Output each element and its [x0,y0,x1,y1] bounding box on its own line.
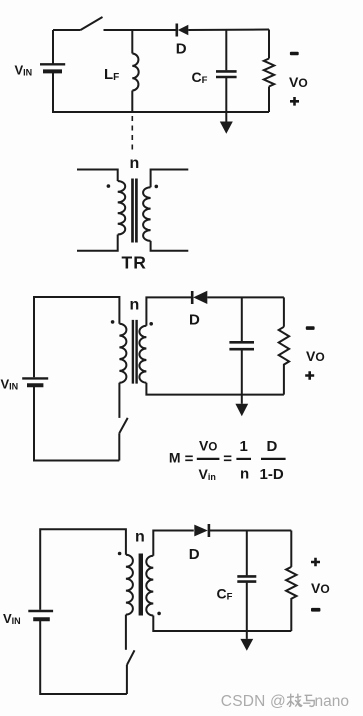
transformer primary winding [126,555,133,615]
svg-text:D: D [176,41,187,58]
capacitor plate top [229,341,254,344]
svg-text:n: n [130,297,140,314]
transformer TR secondary winding [143,187,151,241]
diode D3 cathode bar [208,524,211,537]
inductor LF coil [132,54,138,91]
transformer core line left [132,320,134,384]
wire: top rail left segment [53,29,81,31]
svg-text:1: 1 [240,438,248,455]
capacitor CF branch lower [246,583,248,631]
svg-text:CSDN @: CSDN @ [221,693,286,710]
dashed link to transformer [131,116,133,151]
capacitor branch lower [241,350,243,394]
resistor zigzag [286,567,296,631]
transformer primary winding [119,324,126,383]
svg-text:nano: nano [315,693,349,710]
svg-text:VO: VO [289,74,308,90]
diode D (cathode bar) [176,24,179,37]
battery VIN short plate [43,69,62,73]
wire: top rail right segment [188,29,269,32]
svg-text:D: D [267,438,278,455]
glyph 与 (drawn) [303,695,314,706]
wire: secondary bottom lead + bottom rail right [153,616,291,632]
wire: secondary top lead [153,531,194,556]
svg-text:M: M [169,449,181,465]
battery VIN long plate [22,377,48,379]
fraction bar 3 [261,458,286,460]
inductor LF branch: top lead [131,30,133,54]
wire: switch to bottom rail [118,433,120,460]
ground arrow [220,122,233,134]
svg-text:CF: CF [192,69,208,86]
switch S1 blade [81,17,103,30]
wire: left branch lower [52,73,54,112]
wire: secondary bottom lead + bottom rail right [146,383,284,395]
svg-text:VO: VO [199,438,217,454]
wire: switch to bottom rail [126,665,128,694]
polarity dot secondary [157,612,161,616]
ground stem [246,631,248,639]
svg-text:VO: VO [306,348,325,364]
svg-text:=: = [223,450,232,467]
battery VIN short plate [33,617,50,621]
ground stem [225,112,227,122]
wire: left branch lower + bottom rail [34,387,119,461]
svg-text:TR: TR [122,253,147,273]
diode D3 triangle pointing right [194,525,208,537]
wire: primary to switch [118,383,120,418]
fraction bar 1 [197,458,220,460]
polarity dot secondary [155,185,159,189]
battery VIN long plate [28,610,53,612]
wire: left branch upper [52,30,54,64]
polarity dot primary [118,552,122,556]
wire: primary to switch [125,615,127,650]
diode D (triangle, pointing left) [178,25,189,36]
polarity dot primary [107,184,111,188]
resistor zigzag [279,327,289,395]
inductor LF bottom lead [131,91,133,113]
wire: primary top lead [77,170,118,182]
resistor RL branch upper [268,30,270,59]
label minus [311,608,320,612]
svg-text:VO: VO [311,580,330,596]
svg-text:D: D [189,546,200,563]
svg-text:VIN: VIN [1,377,19,392]
switch S3 blade [127,650,135,665]
label plus (vO bottom) [290,97,299,106]
wire: secondary top lead [151,170,189,188]
wire: left branch lower + bottom rail [40,621,127,695]
svg-text:n: n [240,466,249,483]
ground arrow [235,404,248,416]
wire: primary bottom lead [77,235,118,251]
battery VIN long plate [40,63,65,65]
svg-text:CF: CF [217,585,233,602]
capacitor CF plate bottom [216,76,237,79]
polarity dot primary [111,320,115,324]
capacitor plate bottom [229,348,254,351]
label plus [311,558,320,567]
transformer secondary winding [146,556,153,616]
wire: top rail [34,297,119,377]
transformer core bar [139,554,143,616]
wire: top rail mid segment [104,29,177,31]
switch S2 blade [119,418,127,433]
capacitor branch upper [241,297,243,341]
label minus (vO top) [290,52,299,55]
svg-text:1-D: 1-D [260,466,284,483]
transformer core line right [135,320,137,384]
resistor branch upper [290,531,292,567]
svg-text:Vin: Vin [199,466,216,482]
resistor RL zigzag [264,59,274,87]
polarity dot secondary [149,322,153,326]
fraction bar 2 [236,458,251,460]
resistor RL branch lower [268,87,270,113]
capacitor CF plate top [216,70,237,73]
diode D2 triangle pointing left [193,291,207,304]
transformer TR core line left [131,179,134,243]
transformer TR core line right [135,179,138,243]
svg-text:VIN: VIN [15,63,33,78]
battery VIN short plate [27,383,43,387]
svg-text:LF: LF [104,66,119,83]
ground stem [241,395,243,404]
glyph 我 (drawn) [287,694,302,707]
diode D2 cathode bar [191,291,194,304]
wire: secondary bottom lead [151,241,189,251]
wire: secondary top lead [146,297,191,325]
transformer secondary winding [139,326,146,383]
capacitor CF branch upper [225,30,227,70]
wire: top rail right segment [207,296,284,298]
capacitor CF plate bottom [237,580,256,583]
transformer TR primary winding [118,181,126,235]
svg-text:n: n [130,155,140,172]
wire: bottom rail [52,111,269,113]
svg-text:n: n [135,529,145,546]
svg-text:D: D [189,312,200,329]
capacitor CF branch lower [225,78,227,112]
wire: top rail right segment [210,530,291,532]
wire: top rail [40,529,126,610]
resistor branch upper [283,297,285,326]
ground arrow [240,639,253,651]
capacitor CF branch upper [246,531,248,576]
label plus [305,371,314,380]
svg-text:VIN: VIN [3,611,21,626]
label minus [306,326,315,330]
capacitor CF plate top [237,575,256,578]
svg-text:=: = [185,450,194,467]
